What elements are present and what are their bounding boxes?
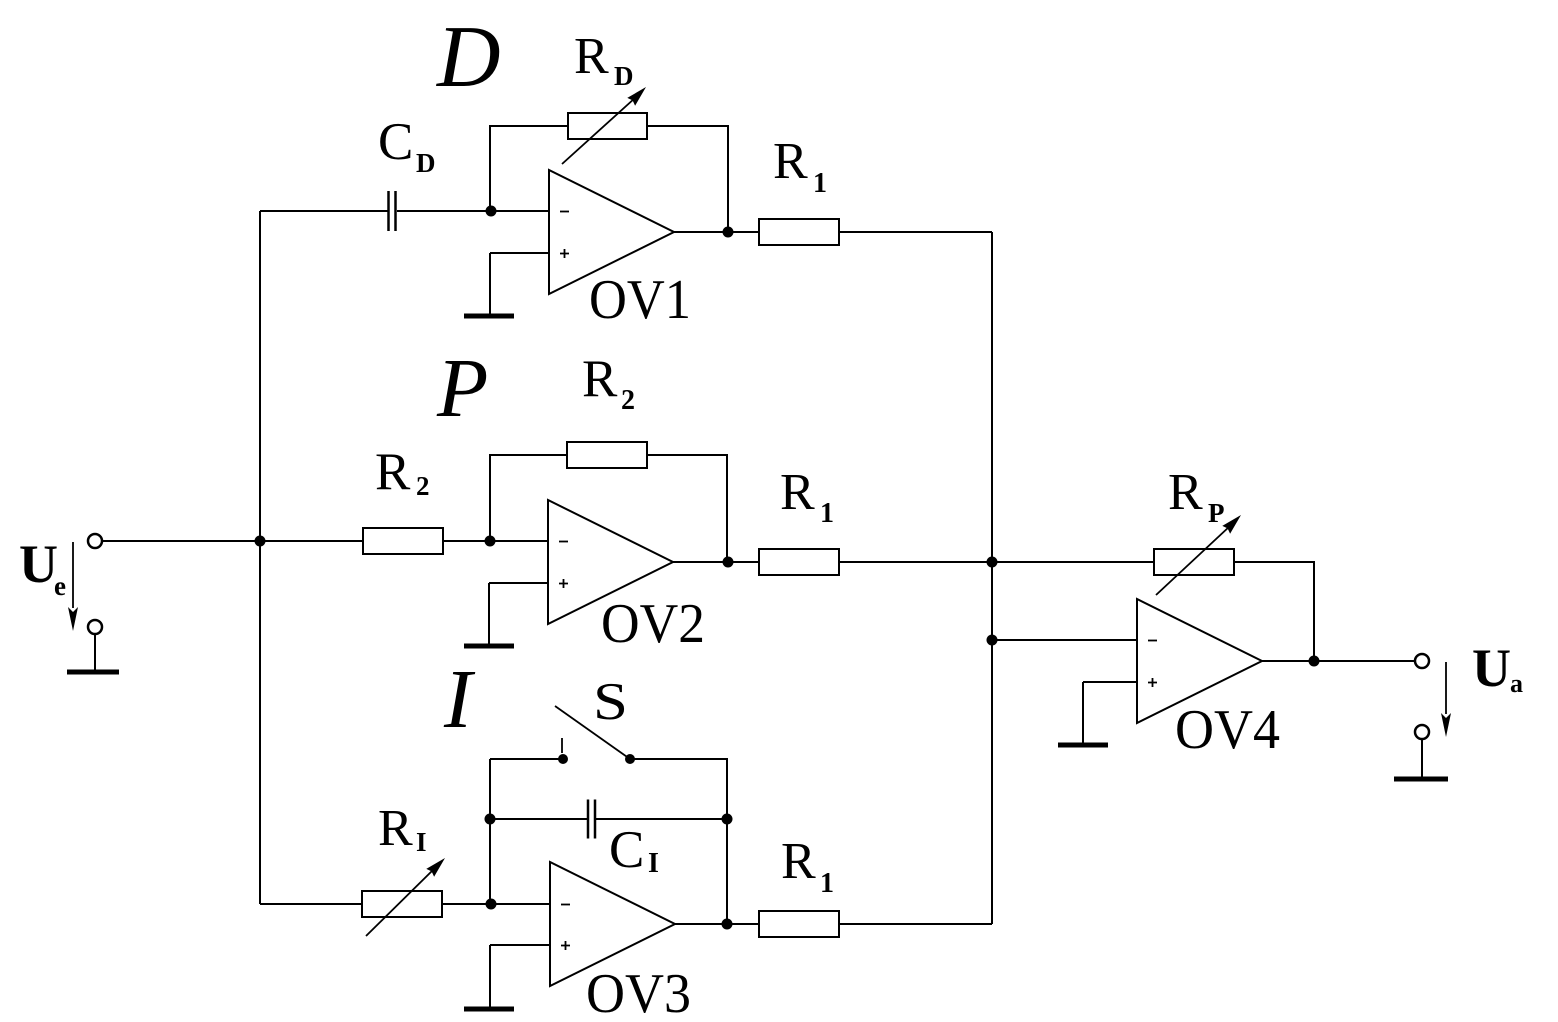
switch S [555,706,635,764]
wire P branch input [260,540,363,542]
label Ua [1472,638,1523,698]
node Ua output terminal [1415,654,1429,668]
wire RP to output node [1234,562,1314,661]
node OV1 inverting input junction [486,206,497,217]
svg-text:2: 2 [621,385,635,416]
wire switch row right [630,759,727,924]
wire D branch input [260,210,388,212]
svg-text:R: R [378,800,413,857]
wire OV2 feedback left [490,455,567,541]
arrow Ue [68,542,78,631]
resistor RD [568,113,647,139]
wire OV3 output [675,923,759,925]
resistor RP [1154,549,1234,575]
resistor RI [362,891,442,917]
resistor R2 feedback [567,442,647,468]
wire CI row left [490,818,588,820]
wire OV4 minus input [992,639,1137,641]
label RD [574,28,634,91]
label Ue [19,534,66,601]
svg-text:OV4: OV4 [1175,699,1280,761]
arrow Ua [1441,662,1451,737]
wire OV1 plus input [490,252,549,254]
wire R2 to OV2 [443,540,548,542]
label RP [1168,464,1225,528]
wire OV1 feedback right [647,126,728,232]
svg-text:P: P [1208,498,1225,528]
op-amp OV1 [549,170,674,294]
svg-text:R: R [582,350,618,408]
node CI left junction [485,814,496,825]
wire RP row [992,561,1154,563]
resistor R1 (D row) [759,219,839,245]
node OV1 output junction [723,227,734,238]
label R2 feedback [582,350,635,416]
label R1 (I row) [781,833,834,899]
svg-text:P: P [436,342,488,435]
wire input to bus [102,540,260,542]
svg-text:C: C [609,821,644,879]
svg-text:I: I [443,653,476,746]
label D [436,9,501,106]
ground OV2 [464,583,514,646]
ground input terminal [67,620,119,672]
svg-text:I: I [648,848,659,879]
node bus junction lower [987,635,998,646]
resistor R1 (I row) [759,911,839,937]
label R1 (D row) [773,133,827,199]
svg-text:U: U [1472,638,1511,698]
wire OV2 output [673,561,759,563]
wire OV2 plus input [489,582,548,584]
ground OV4 [1058,682,1108,745]
arrow RP variable [1156,515,1241,595]
op-amp OV3 [550,862,675,986]
svg-text:R: R [574,28,609,85]
label OV4 [1175,699,1280,761]
svg-text:C: C [378,113,413,171]
wire OV1 output [674,231,759,233]
capacitor CD [389,191,396,231]
node OV3 inverting input junction [486,899,497,910]
wire R1 to bus (P row) [839,561,992,563]
wire OV4 plus input [1083,681,1137,683]
svg-text:R: R [781,833,816,890]
ground OV1 [464,253,514,316]
label OV1 [589,269,691,331]
wire RI to OV3 [442,903,550,905]
wire OV3 plus input [490,944,550,946]
svg-text:1: 1 [820,498,834,529]
label OV3 [586,963,691,1022]
svg-text:R: R [780,464,815,521]
svg-text:S: S [593,673,628,731]
wire OV3 feedback left vertical [489,759,491,904]
arrow RD variable [562,87,646,164]
wire left bus vertical [259,211,261,904]
wire switch row left [490,758,563,760]
resistor R2 input [363,528,443,554]
svg-text:I: I [416,827,427,857]
ground output terminal [1394,725,1448,779]
node OV2 inverting input junction [485,536,496,547]
svg-text:2: 2 [416,471,430,501]
wire summing bus vertical [991,232,993,924]
op-amp OV4 [1137,599,1262,723]
svg-text:R: R [375,443,411,501]
svg-text:D: D [416,148,436,178]
node Ue input terminal [88,534,102,548]
label OV2 [601,593,705,655]
node OV3 output junction [722,919,733,930]
node OV2 output junction [723,557,734,568]
svg-text:a: a [1510,669,1523,698]
svg-text:OV3: OV3 [586,963,691,1022]
label RI [378,800,427,857]
svg-text:R: R [1168,464,1203,521]
node output junction [1309,656,1320,667]
wire CD to OV1 [397,210,549,212]
svg-text:1: 1 [813,168,827,199]
label CD [378,113,436,178]
label R2 input [375,443,430,501]
svg-text:OV2: OV2 [601,593,705,655]
wire OV2 feedback right [647,455,727,562]
svg-text:1: 1 [820,868,834,899]
capacitor CI [588,800,595,839]
node CI right junction [722,814,733,825]
svg-text:OV1: OV1 [589,269,691,331]
label CI [609,821,659,879]
arrow RI variable [366,858,445,936]
node input junction [255,536,266,547]
node bus junction upper [987,557,998,568]
wire R1 to bus (D row) [839,231,992,233]
op-amp OV2 [548,500,673,624]
svg-text:e: e [54,571,66,601]
wire R1 to bus (I row) [839,923,992,925]
svg-text:R: R [773,133,808,190]
label R1 (P row) [780,464,834,529]
wire OV4 output [1262,660,1415,662]
label I [443,653,476,746]
resistor R1 (P row) [759,549,839,575]
ground OV3 [464,945,514,1009]
svg-text:D: D [614,61,634,91]
svg-text:D: D [436,9,501,106]
wire CI row right [595,818,727,820]
wire OV1 feedback left [490,126,568,211]
label P [436,342,488,435]
wire I branch input [260,903,362,905]
svg-text:U: U [19,534,58,594]
label S [593,673,628,731]
